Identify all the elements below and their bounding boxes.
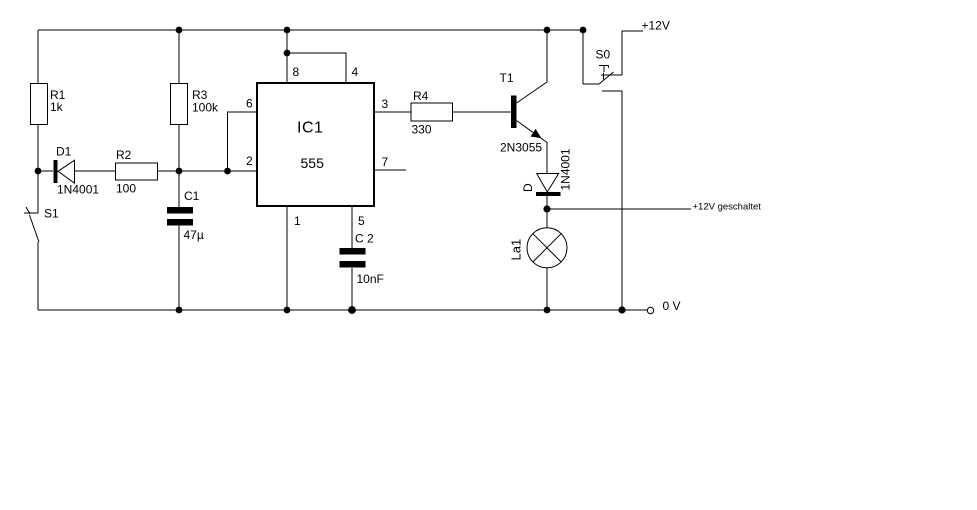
wire pin 1 to 0V rail	[286, 207, 288, 310]
wire T1 collector to top rail	[546, 30, 548, 82]
svg-text:D: D	[521, 183, 535, 192]
wire T1 emitter to diode D	[546, 142, 548, 174]
junction node C (pin2/pin6 branch)	[224, 168, 231, 175]
svg-text:555: 555	[301, 155, 325, 171]
wire pin 7 stub	[375, 169, 406, 171]
svg-text:+12V: +12V	[642, 19, 670, 33]
capacitor C1	[167, 207, 193, 226]
junction pin 8 / top rail	[284, 27, 291, 34]
junction top rail at R3	[176, 27, 183, 34]
wire R3 bottom to node B	[178, 125, 180, 171]
junction C1 / 0V rail	[176, 307, 183, 314]
wire C1 to 0V rail	[178, 225, 180, 310]
wire R4 to T1 base	[452, 111, 511, 113]
wire S0 to +12V terminal	[622, 31, 643, 75]
wire pin 4 branch	[287, 53, 346, 82]
svg-text:47µ: 47µ	[184, 228, 204, 242]
svg-text:6: 6	[246, 97, 253, 111]
svg-text:C1: C1	[184, 189, 200, 203]
wire R3 top	[178, 30, 180, 84]
resistor R3	[171, 84, 188, 125]
diode D1	[41, 160, 116, 183]
junction T1 collector / top rail	[544, 27, 551, 34]
junction S0 / top rail	[580, 27, 587, 34]
svg-text:0 V: 0 V	[663, 299, 681, 313]
svg-text:7: 7	[382, 155, 389, 169]
resistor R1	[31, 84, 48, 125]
junction C2 / 0V rail	[348, 306, 356, 314]
capacitor C2	[340, 248, 366, 268]
svg-text:100k: 100k	[192, 101, 219, 115]
svg-text:10nF: 10nF	[357, 272, 384, 286]
wire pin 6 branch	[228, 112, 257, 171]
resistor R2	[116, 163, 158, 180]
svg-text:1N4001: 1N4001	[559, 148, 573, 190]
svg-text:S0: S0	[596, 48, 611, 62]
wire top +12V rail	[38, 29, 583, 31]
svg-text:1: 1	[294, 214, 301, 228]
svg-text:8: 8	[293, 65, 300, 79]
wire +12V geschaltet	[547, 208, 691, 210]
svg-text:1N4001: 1N4001	[57, 183, 99, 197]
resistor R4	[411, 103, 453, 121]
svg-text:R2: R2	[116, 148, 132, 162]
terminal 0V	[647, 307, 653, 313]
svg-text:D1: D1	[56, 145, 72, 159]
svg-text:S1: S1	[44, 207, 59, 221]
transistor Q1 T1	[511, 82, 547, 143]
diode D	[536, 174, 561, 197]
svg-text:+12V geschaltet: +12V geschaltet	[693, 201, 762, 212]
svg-text:2: 2	[246, 154, 253, 168]
wire diode D to node E	[546, 196, 548, 209]
junction pin 1 / 0V rail	[284, 307, 291, 314]
svg-text:330: 330	[412, 123, 432, 137]
wire node B to C1	[178, 171, 180, 208]
svg-text:T1: T1	[500, 71, 514, 85]
wire C2 to 0V rail	[351, 268, 353, 310]
svg-text:100: 100	[116, 182, 136, 196]
wire 0V bottom rail	[38, 309, 647, 311]
junction node E (+12V geschaltet)	[543, 205, 550, 212]
junction node A (R1/D1/S1)	[35, 168, 42, 175]
switch S1	[24, 171, 39, 242]
wire La1 to 0V rail	[546, 268, 548, 310]
wire left rail down to R1	[37, 30, 39, 84]
junction La1 / 0V rail	[544, 307, 551, 314]
svg-text:C 2: C 2	[355, 232, 374, 246]
svg-text:IC1: IC1	[297, 120, 323, 137]
wire R1 bottom to node A	[37, 125, 39, 171]
wire S1 to 0V rail	[37, 242, 39, 310]
IC U1 IC1 555	[257, 83, 374, 206]
junction S0 branch / 0V rail	[618, 306, 625, 313]
junction pin 8 / pin 4 branch	[284, 50, 291, 57]
wire pin 5 to C2	[351, 207, 353, 248]
svg-text:2N3055: 2N3055	[500, 141, 542, 155]
switch S0	[583, 66, 622, 85]
svg-text:5: 5	[358, 214, 365, 228]
wire pin 8 to top rail	[286, 30, 288, 82]
svg-text:3: 3	[382, 97, 389, 111]
svg-text:R4: R4	[413, 89, 429, 103]
wire node B row to pin 2	[158, 170, 256, 172]
wire top rail to S0	[582, 30, 584, 84]
svg-text:La1: La1	[509, 239, 524, 261]
wire S0 lower contact to 0V rail	[602, 91, 622, 310]
wire pin 3 to R4	[375, 111, 411, 113]
svg-text:1k: 1k	[50, 100, 64, 114]
wire node E to lamp La1	[546, 209, 548, 228]
lamp La1	[527, 228, 567, 268]
junction node B (R2/R3/C1)	[176, 168, 183, 175]
svg-text:4: 4	[352, 65, 359, 79]
